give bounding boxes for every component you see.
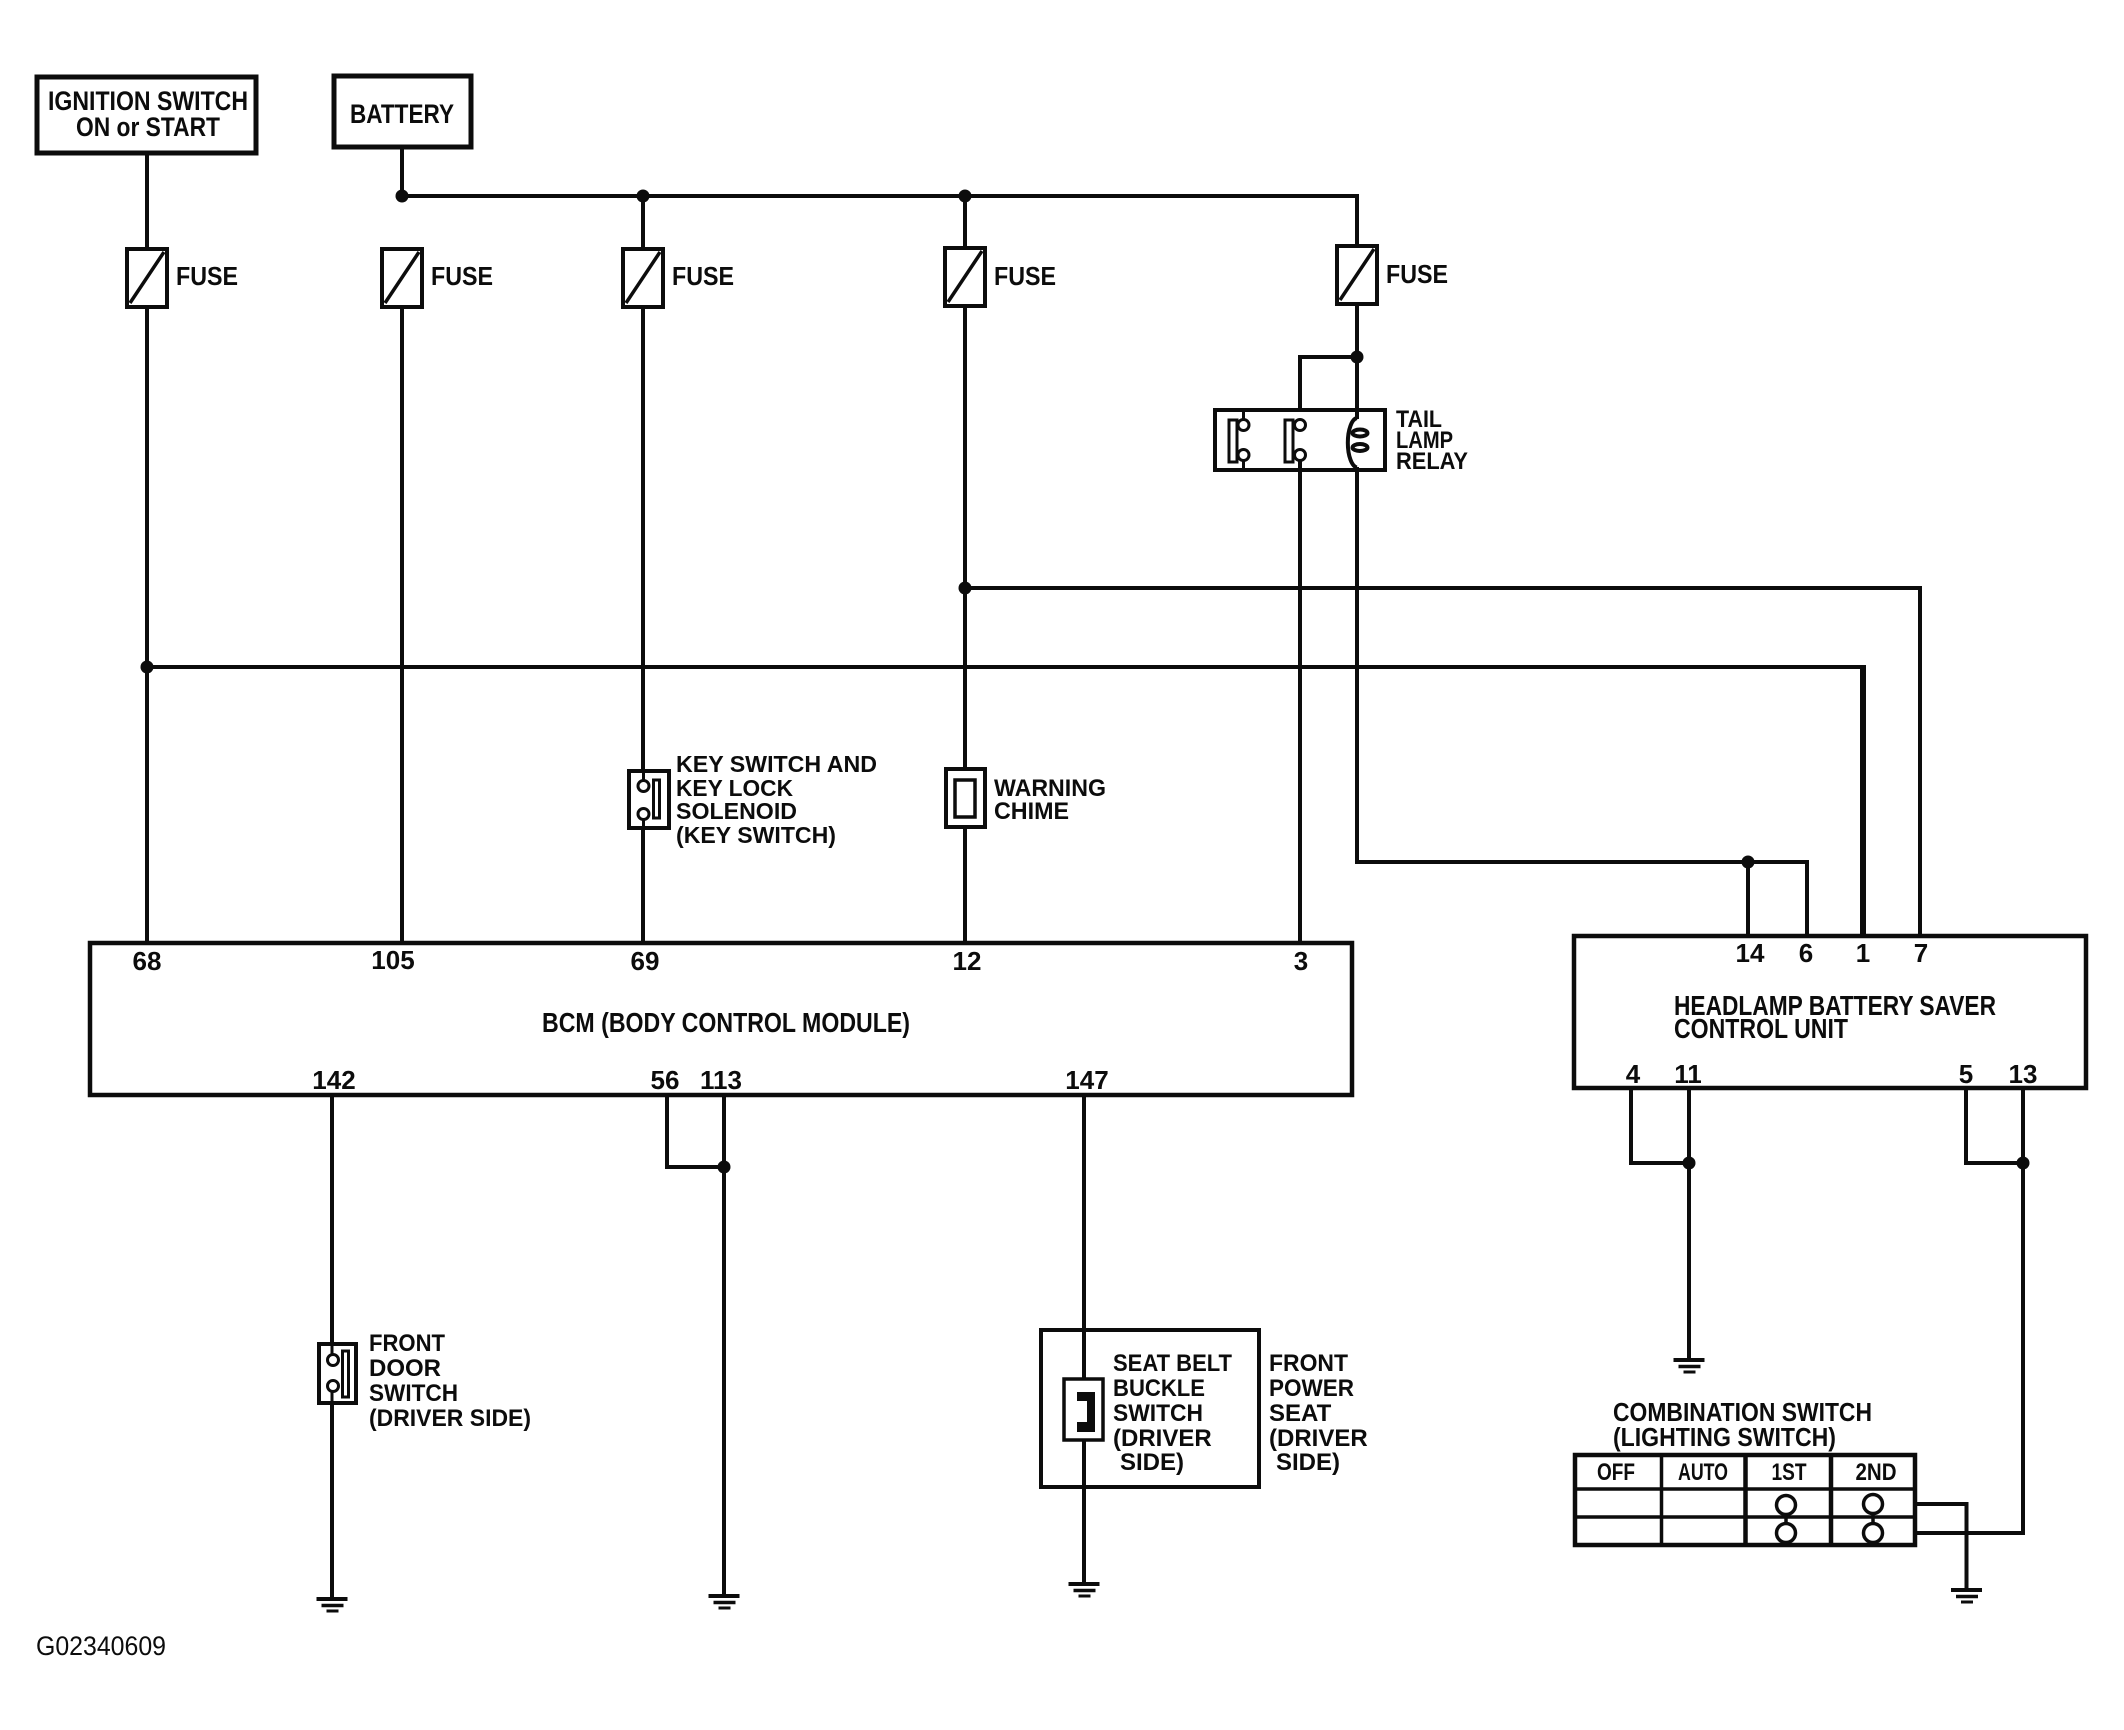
svg-text:147: 147 <box>1065 1065 1108 1095</box>
svg-text:142: 142 <box>312 1065 355 1095</box>
wire: F4 down through warning chime to BCM pin 12 <box>963 306 967 943</box>
svg-text:113: 113 <box>700 1065 742 1095</box>
wire: long horizontal to HBS pin 1 <box>147 665 1866 669</box>
svg-text:SWITCH: SWITCH <box>369 1380 458 1407</box>
svg-text:3: 3 <box>1294 946 1308 976</box>
svg-text:6: 6 <box>1799 938 1813 968</box>
svg-text:1: 1 <box>1856 938 1870 968</box>
svg-text:SEAT BELT: SEAT BELT <box>1113 1350 1232 1377</box>
svg-text:56: 56 <box>651 1065 680 1095</box>
svg-text:CHIME: CHIME <box>994 798 1069 825</box>
warning chime <box>946 769 1106 827</box>
wire: battery down to bus <box>400 147 404 198</box>
svg-text:BUCKLE: BUCKLE <box>1113 1375 1205 1402</box>
svg-text:SWITCH: SWITCH <box>1113 1400 1203 1427</box>
wire: BCM pin 56 stub <box>667 1095 724 1167</box>
svg-text:CONTROL UNIT: CONTROL UNIT <box>1674 1013 1848 1044</box>
node: junction on pin-14 stub <box>1742 856 1755 869</box>
combination switch (lighting switch) <box>1575 1397 1915 1545</box>
node: junction on pin-12 wire <box>959 582 972 595</box>
front door switch (driver side) <box>319 1330 531 1432</box>
svg-text:RELAY: RELAY <box>1396 448 1468 475</box>
ignition switch box <box>37 77 256 153</box>
ground: combination switch <box>1951 1590 1982 1602</box>
svg-text:14: 14 <box>1736 938 1765 968</box>
node: junction pin 4/11 <box>1683 1157 1696 1170</box>
svg-text:SOLENOID: SOLENOID <box>676 798 797 824</box>
wire: relay contact to BCM pin 3 <box>1298 460 1302 943</box>
wire: HBS pin 4 stub <box>1631 1088 1689 1163</box>
wire: branch to relay contact <box>1300 357 1357 425</box>
ground: front door switch <box>317 1599 348 1611</box>
fuse F2 (battery) <box>382 249 493 307</box>
node: junction on pin-68 wire <box>141 661 154 674</box>
wire: HBS pin 5 stub <box>1966 1088 2023 1163</box>
wire: F3 down through key switch to BCM pin 69 <box>641 307 645 943</box>
svg-text:11: 11 <box>1674 1059 1702 1089</box>
ground: HBS pin 11 <box>1674 1360 1705 1372</box>
svg-text:SIDE): SIDE) <box>1120 1449 1184 1476</box>
svg-text:FRONT: FRONT <box>369 1330 445 1357</box>
svg-text:(DRIVER SIDE): (DRIVER SIDE) <box>369 1405 531 1432</box>
wire: bus corner down to fuse F5 <box>1355 194 1359 246</box>
svg-text:68: 68 <box>133 946 162 976</box>
wire: relay coil down and right to HBS pin 6 <box>1357 467 1807 936</box>
svg-text:(KEY SWITCH): (KEY SWITCH) <box>676 822 836 848</box>
svg-text:BCM (BODY CONTROL MODULE): BCM (BODY CONTROL MODULE) <box>542 1007 910 1038</box>
svg-text:POWER: POWER <box>1269 1375 1354 1402</box>
svg-text:2ND: 2ND <box>1856 1459 1897 1486</box>
wire: battery bus horizontal <box>402 194 1357 198</box>
svg-text:FUSE: FUSE <box>1386 259 1448 289</box>
svg-text:1ST: 1ST <box>1772 1459 1807 1486</box>
BCM (Body Control Module) box <box>90 943 1352 1095</box>
svg-text:FUSE: FUSE <box>431 261 493 291</box>
svg-text:FUSE: FUSE <box>176 261 238 291</box>
svg-text:SEAT: SEAT <box>1269 1400 1332 1427</box>
wire: horizontal to HBS pin 7 <box>965 588 1920 936</box>
wire: stub to HBS pin 14 <box>1746 862 1750 936</box>
svg-text:G02340609: G02340609 <box>36 1631 166 1661</box>
tail lamp relay <box>1215 406 1468 475</box>
svg-text:AUTO: AUTO <box>1678 1459 1728 1486</box>
key switch and key lock solenoid <box>629 751 877 848</box>
svg-text:FUSE: FUSE <box>994 261 1056 291</box>
wire: combination switch row 2 to ground <box>1915 1504 1967 1589</box>
ground: pin 113 <box>709 1596 740 1608</box>
node: junction pin 56/113 <box>718 1161 731 1174</box>
svg-text:(DRIVER: (DRIVER <box>1269 1425 1368 1452</box>
fuse F4 (warning chime) <box>945 248 1056 306</box>
wire: BCM pin 142 down through door switch <box>330 1095 334 1598</box>
wire: HBS pin 11 to ground <box>1687 1088 1691 1359</box>
svg-text:SIDE): SIDE) <box>1276 1449 1340 1476</box>
svg-text:13: 13 <box>2009 1059 2038 1089</box>
fuse F1 (ignition) <box>127 249 238 307</box>
wire: BCM pin 147 down through seat belt buckle switch <box>1082 1095 1086 1583</box>
contact circles 1ST <box>1777 1496 1796 1515</box>
svg-text:KEY SWITCH AND: KEY SWITCH AND <box>676 751 877 777</box>
contact circles 2ND <box>1864 1495 1883 1514</box>
svg-text:5: 5 <box>1959 1059 1973 1089</box>
wire: HBS pin 13 down to combination switch <box>1915 1088 2023 1533</box>
svg-text:12: 12 <box>953 946 982 976</box>
wire: bus to fuse F4 <box>963 196 967 248</box>
svg-text:(DRIVER: (DRIVER <box>1113 1425 1212 1452</box>
node: bus at battery <box>396 190 409 203</box>
ground: seat belt buckle switch <box>1069 1584 1100 1596</box>
svg-text:4: 4 <box>1626 1059 1641 1089</box>
node: junction below fuse F5 <box>1351 351 1364 364</box>
front power seat (driver side) outer box <box>1041 1330 1368 1487</box>
svg-text:FRONT: FRONT <box>1269 1350 1348 1377</box>
wire: F1 to BCM pin 68 <box>145 307 149 943</box>
svg-text:7: 7 <box>1914 938 1928 968</box>
svg-text:(LIGHTING SWITCH): (LIGHTING SWITCH) <box>1613 1422 1836 1452</box>
wire: ignition switch to fuse F1 <box>145 153 149 249</box>
battery box <box>334 76 471 147</box>
svg-text:DOOR: DOOR <box>369 1355 441 1382</box>
svg-text:ON or START: ON or START <box>76 112 220 142</box>
wire: F2 to BCM pin 105 <box>400 307 404 943</box>
seat belt buckle switch (driver side) <box>1064 1331 1232 1486</box>
node: bus at fuse F4 branch <box>959 190 972 203</box>
svg-text:BATTERY: BATTERY <box>350 99 454 129</box>
svg-text:105: 105 <box>371 945 414 975</box>
fuse F3 (key switch) <box>623 249 734 307</box>
headlamp battery saver control unit box <box>1574 936 2086 1088</box>
node: junction pin 5/13 <box>2017 1157 2030 1170</box>
node: bus at fuse F3 branch <box>637 190 650 203</box>
wire: F5 to relay coil <box>1355 304 1359 416</box>
svg-text:FUSE: FUSE <box>672 261 734 291</box>
svg-text:69: 69 <box>631 946 660 976</box>
wire: BCM pin 113 to ground <box>722 1095 726 1595</box>
svg-text:OFF: OFF <box>1597 1459 1635 1486</box>
wire: bus to fuse F3 <box>641 196 645 249</box>
fuse F5 (tail lamp relay) <box>1337 246 1448 304</box>
